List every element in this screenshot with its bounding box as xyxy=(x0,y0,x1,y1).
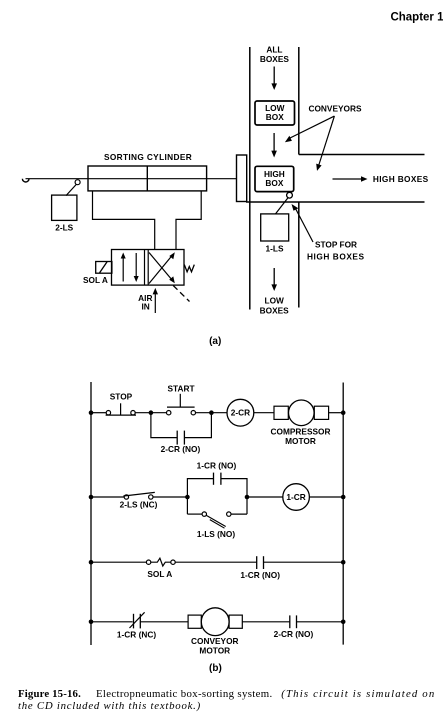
wire rung 1 to coil xyxy=(196,412,228,414)
svg-text:1-CR: 1-CR xyxy=(286,492,305,502)
svg-text:(b): (b) xyxy=(209,663,222,674)
valve divider xyxy=(145,250,149,286)
limit switch 1-LS roller xyxy=(287,192,293,198)
arrow: stop pin pointer xyxy=(292,204,314,242)
svg-text:CONVEYOR: CONVEYOR xyxy=(191,636,238,646)
svg-text:START: START xyxy=(167,383,194,393)
label SOL A xyxy=(83,275,108,285)
limit switch 2-LS body xyxy=(52,195,77,220)
cylinder rod xyxy=(26,178,237,180)
node rung3-L2 junction xyxy=(341,560,346,565)
arrow: conveyors pointer to vertical conveyor xyxy=(285,116,335,142)
exhaust pilot dashed line xyxy=(173,286,189,302)
wire rung 1 between STOP and START xyxy=(135,412,166,414)
wire rung 2 to coil xyxy=(247,496,283,498)
wire motor to right rail xyxy=(329,412,344,414)
wire rung 4 left segment xyxy=(91,621,133,623)
wire rung 3 right segment xyxy=(264,561,344,563)
svg-text:1-LS (NO): 1-LS (NO) xyxy=(197,529,235,539)
limit switch 1-LS body xyxy=(261,214,289,241)
contact 2-CR (NO) holding xyxy=(177,431,184,445)
conveyor: vertical conveyor left rail xyxy=(249,47,251,310)
wire rung 4 contact to motor xyxy=(140,621,188,623)
label HIGH BOXES xyxy=(373,174,429,184)
node rung2 branch right junction xyxy=(245,495,250,500)
svg-text:1-CR (NO): 1-CR (NO) xyxy=(240,570,280,580)
wire rung 3 left segment xyxy=(91,561,147,563)
label (b) xyxy=(209,663,222,674)
conveyor: vertical conveyor right rail (lower segment) xyxy=(298,202,300,308)
wire rung 2 to right rail xyxy=(309,496,343,498)
label AIR IN xyxy=(138,293,152,312)
wire holding branch xyxy=(151,413,212,438)
label 2-LS (NC) xyxy=(120,500,158,510)
ladder right power rail L2 xyxy=(342,383,344,645)
label STOP xyxy=(110,392,133,402)
node branch start junction xyxy=(149,410,154,415)
pusher plate xyxy=(237,155,247,202)
wire rung2 lower branch segments xyxy=(187,513,247,515)
wire rung 2 left segment xyxy=(91,496,124,498)
label 1-CR (NC) xyxy=(117,630,156,640)
coil 1-CR xyxy=(283,484,310,511)
air supply arrow AIR IN xyxy=(153,288,158,313)
box HIGH BOX xyxy=(255,166,294,191)
label SOL A rung3 xyxy=(147,569,172,579)
pushbutton START (NO) xyxy=(167,394,196,415)
svg-text:2-CR (NO): 2-CR (NO) xyxy=(161,444,201,454)
node rung2-L1 junction xyxy=(89,495,94,500)
wire rung 2 to branch xyxy=(153,496,187,498)
label 1-CR (NO) xyxy=(197,460,237,470)
svg-text:2-CR (NO): 2-CR (NO) xyxy=(274,629,314,639)
wire rung 3 middle segment xyxy=(175,561,257,563)
limit switch 1-LS lever xyxy=(276,198,289,214)
label 2-CR (NO) rung4 xyxy=(274,629,314,639)
motor M2 conveyor motor xyxy=(188,608,242,636)
valve left chamber up arrow xyxy=(121,253,126,282)
label SORTING CYLINDER xyxy=(104,152,192,162)
label 1-CR (NO) rung3 xyxy=(240,570,280,580)
node branch end junction xyxy=(209,410,214,415)
node rung1-L2 junction xyxy=(341,410,346,415)
node rung4-L1 junction xyxy=(89,620,94,625)
label STOP FOR HIGH BOXES xyxy=(307,240,365,262)
label "Chapter 1" page header xyxy=(390,11,443,23)
label START xyxy=(167,383,194,393)
limit switch 2-LS roller xyxy=(75,180,80,185)
wire rung2 parallel branch frame xyxy=(187,479,247,514)
svg-text:SOL A: SOL A xyxy=(147,569,172,579)
svg-text:MOTOR: MOTOR xyxy=(199,645,230,655)
label 1-LS xyxy=(266,244,284,254)
node rung2 branch left junction xyxy=(185,495,190,500)
label LOW BOXES xyxy=(260,295,290,315)
figure caption xyxy=(18,688,443,712)
contact 2-CR (NO) rung4 xyxy=(290,615,297,628)
contact 1-CR (NO) xyxy=(214,473,221,485)
node rung3-L1 junction xyxy=(89,560,94,565)
pushbutton STOP (NC) xyxy=(106,403,136,415)
wire: tubing cylinder rod end to valve port xyxy=(176,191,201,250)
cylinder piston xyxy=(146,166,148,191)
valve right chamber crossed arrow down xyxy=(149,253,175,284)
solenoid SOL A symbol xyxy=(96,262,112,274)
contact 1-CR (NC) xyxy=(130,612,145,628)
node rung4-L2 junction xyxy=(341,620,346,625)
valve left chamber down arrow xyxy=(134,253,139,282)
svg-text:MOTOR: MOTOR xyxy=(285,436,316,446)
node rung1-L1 junction xyxy=(89,410,94,415)
coil 2-CR xyxy=(227,399,254,426)
svg-text:COMPRESSOR: COMPRESSOR xyxy=(271,426,331,436)
solenoid coil SOL A xyxy=(146,558,175,566)
arrow: low box feed to high box position xyxy=(271,133,277,158)
svg-text:2-LS (NC): 2-LS (NC) xyxy=(120,500,158,510)
label 1-LS (NO) xyxy=(197,529,235,539)
label 2-CR (NO) holding xyxy=(161,444,201,454)
arrow: all boxes feed direction xyxy=(271,67,277,91)
svg-text:1-CR (NC): 1-CR (NC) xyxy=(117,630,156,640)
conveyor: horizontal conveyor bottom rail xyxy=(246,201,425,203)
label ALL BOXES xyxy=(260,45,290,64)
node rung2-L2 junction xyxy=(341,495,346,500)
arrow: low boxes exit direction xyxy=(271,268,277,291)
wire rung 4 right segment xyxy=(297,621,344,623)
box LOW BOX xyxy=(255,101,295,125)
conveyor: horizontal conveyor top rail xyxy=(299,154,425,156)
ladder left power rail L1 xyxy=(90,382,92,645)
valve return spring xyxy=(184,265,194,272)
wire coil to motor xyxy=(254,412,274,414)
contact 1-CR (NO) rung3 xyxy=(257,556,264,569)
label CONVEYORS xyxy=(308,103,361,113)
valve V1 body (4/2 directional valve) xyxy=(112,250,185,286)
label (a) xyxy=(209,336,221,347)
wire rung 1 left segment xyxy=(91,412,106,414)
svg-text:2-CR: 2-CR xyxy=(231,408,250,418)
wire: tubing cylinder cap end to valve port xyxy=(93,191,155,250)
limit switch contact 1-LS (NO) xyxy=(202,512,231,528)
valve right chamber crossed arrow up xyxy=(149,252,175,283)
cylinder C1 body (sorting cylinder) xyxy=(88,166,207,191)
limit switch contact 2-LS (NC) xyxy=(123,492,154,499)
svg-text:STOP: STOP xyxy=(110,392,133,402)
wire rung 4 motor to contact xyxy=(242,621,289,623)
arrow: conveyors pointer to horizontal conveyor xyxy=(316,116,334,171)
arrow: high boxes exit direction xyxy=(333,176,368,181)
limit switch 2-LS lever xyxy=(66,184,76,195)
label 2-LS xyxy=(55,222,73,232)
motor M1 compressor motor xyxy=(274,400,329,426)
cylinder rod end hook xyxy=(22,179,29,182)
conveyor: vertical conveyor right rail (upper segment) xyxy=(298,47,300,155)
label COMPRESSOR MOTOR xyxy=(271,426,331,446)
label CONVEYOR MOTOR xyxy=(191,636,238,656)
svg-text:1-CR (NO): 1-CR (NO) xyxy=(197,460,237,470)
